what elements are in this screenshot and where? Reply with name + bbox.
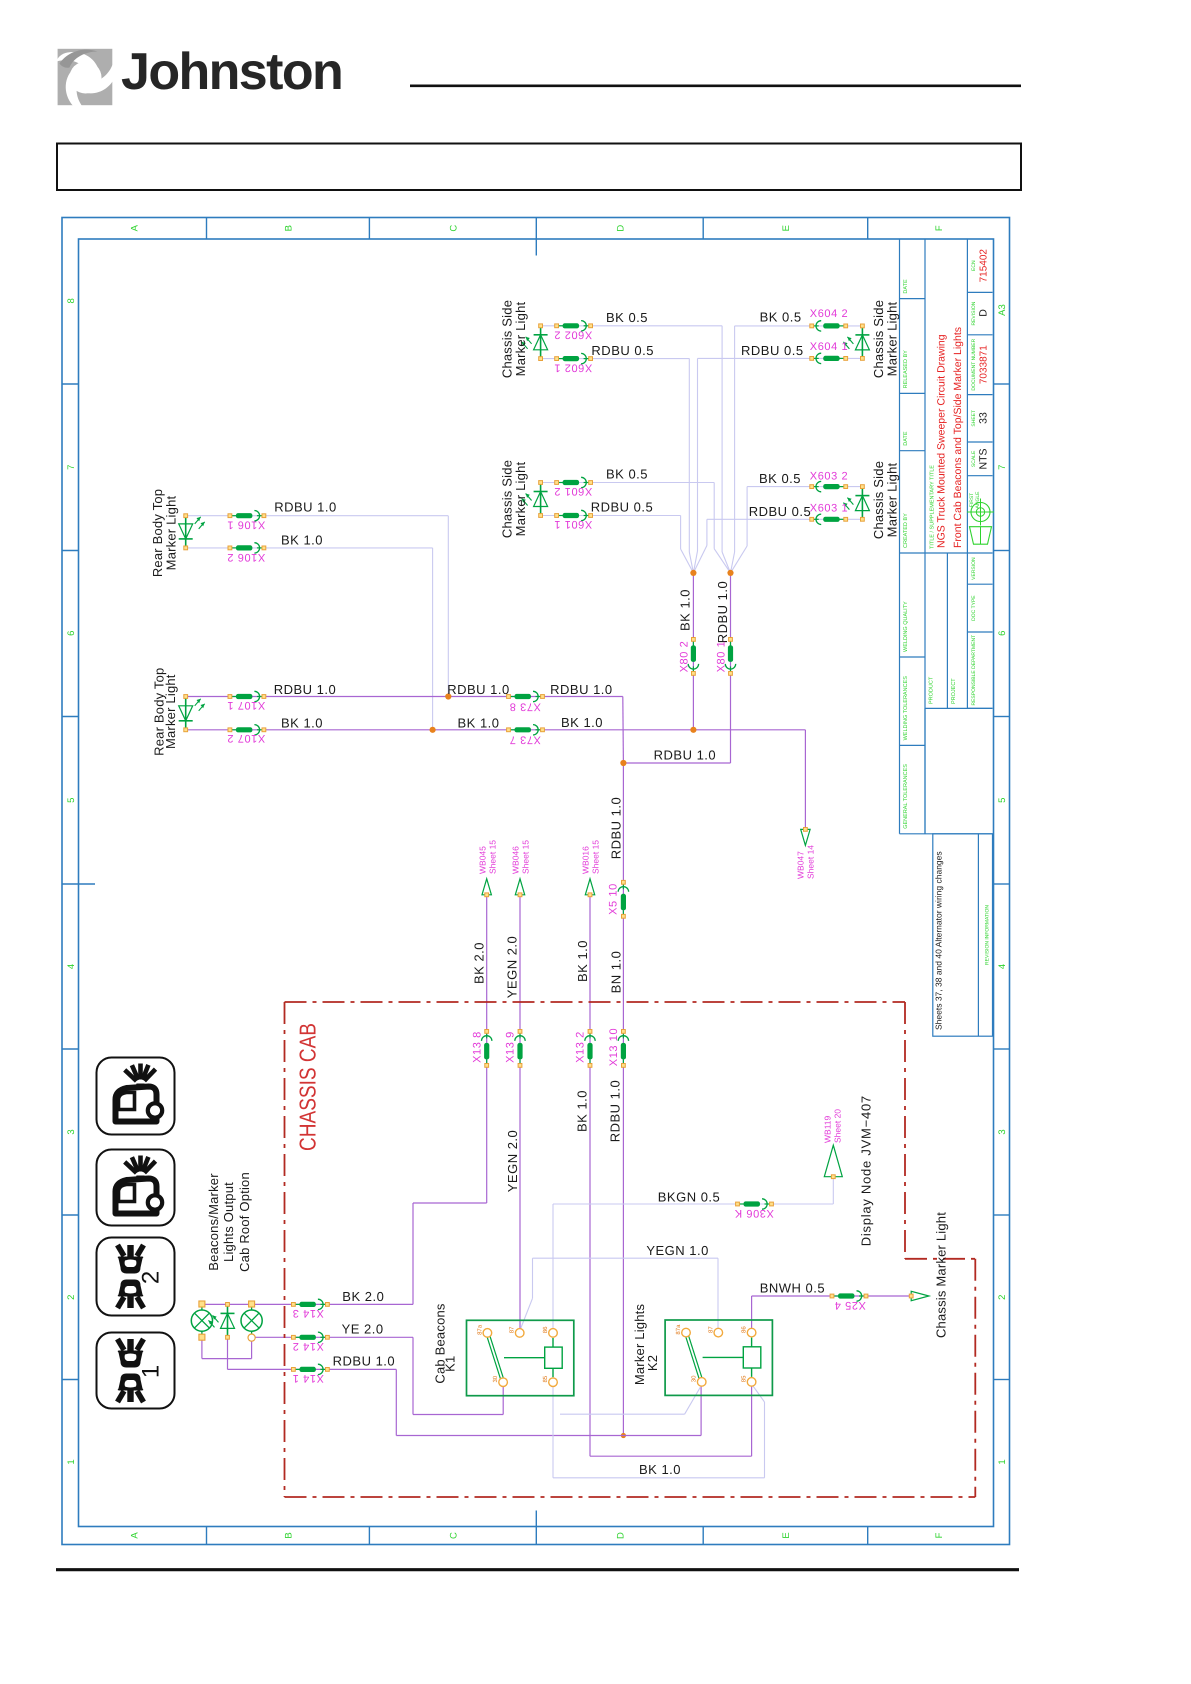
svg-text:X601 1: X601 1 <box>554 518 592 530</box>
svg-text:ECN: ECN <box>971 260 977 271</box>
svg-text:F: F <box>934 225 945 231</box>
svg-text:Chassis Marker Light: Chassis Marker Light <box>933 1212 948 1338</box>
svg-text:BK 1.0: BK 1.0 <box>639 1462 681 1477</box>
svg-text:RDBU 1.0: RDBU 1.0 <box>447 682 510 697</box>
svg-text:87a: 87a <box>675 1324 682 1335</box>
svg-text:REVISION: REVISION <box>971 301 977 325</box>
svg-text:B: B <box>284 225 295 231</box>
svg-text:D: D <box>615 225 626 232</box>
svg-text:YEGN 1.0: YEGN 1.0 <box>646 1243 709 1258</box>
svg-text:WB045: WB045 <box>477 846 487 874</box>
svg-text:7: 7 <box>997 465 1008 470</box>
svg-text:7: 7 <box>66 465 77 470</box>
svg-text:X106 1: X106 1 <box>227 519 265 531</box>
svg-text:Marker Light: Marker Light <box>513 301 528 376</box>
svg-text:X107 2: X107 2 <box>227 732 265 744</box>
svg-text:SHEET: SHEET <box>971 410 977 427</box>
svg-text:X5 10: X5 10 <box>608 883 620 915</box>
svg-text:Beacons/Marker: Beacons/Marker <box>206 1173 221 1271</box>
svg-text:BK 1.0: BK 1.0 <box>575 940 590 982</box>
svg-text:GENERAL TOLERANCES: GENERAL TOLERANCES <box>903 764 909 829</box>
svg-text:Sheet 20: Sheet 20 <box>833 1109 843 1143</box>
svg-text:E: E <box>781 225 792 231</box>
svg-text:Marker Light: Marker Light <box>163 674 178 749</box>
svg-text:86: 86 <box>542 1326 549 1333</box>
svg-text:Sheet 15: Sheet 15 <box>521 840 531 874</box>
svg-text:RDBU 1.0: RDBU 1.0 <box>609 797 624 860</box>
svg-text:1: 1 <box>997 1459 1008 1464</box>
svg-text:Marker Light: Marker Light <box>163 495 178 570</box>
svg-text:2: 2 <box>138 1271 165 1284</box>
svg-text:RDBU 1.0: RDBU 1.0 <box>608 1080 623 1143</box>
svg-text:5: 5 <box>66 798 77 803</box>
svg-text:X107 1: X107 1 <box>227 699 265 711</box>
svg-text:RDBU 0.5: RDBU 0.5 <box>591 500 654 515</box>
svg-text:BK 0.5: BK 0.5 <box>760 310 802 325</box>
svg-text:RELEASED BY: RELEASED BY <box>903 350 909 389</box>
svg-text:Marker Light: Marker Light <box>885 462 900 537</box>
svg-text:86: 86 <box>741 1326 748 1333</box>
svg-text:DOC TYPE: DOC TYPE <box>971 595 977 621</box>
svg-text:E: E <box>781 1532 792 1538</box>
svg-text:1: 1 <box>66 1459 77 1464</box>
svg-text:WB046: WB046 <box>511 846 521 874</box>
svg-text:3: 3 <box>66 1129 77 1134</box>
svg-text:Sheet 14: Sheet 14 <box>806 845 816 879</box>
svg-text:85: 85 <box>741 1375 748 1382</box>
svg-text:BK 2.0: BK 2.0 <box>342 1289 384 1304</box>
svg-text:RDBU 1.0: RDBU 1.0 <box>654 748 717 763</box>
svg-text:SCALE: SCALE <box>971 450 977 467</box>
svg-text:NTS: NTS <box>978 449 990 470</box>
svg-text:A: A <box>130 224 141 231</box>
svg-text:A: A <box>130 1532 141 1539</box>
svg-text:6: 6 <box>997 631 1008 636</box>
svg-text:BN 1.0: BN 1.0 <box>608 951 623 994</box>
svg-text:Lights Output: Lights Output <box>221 1182 236 1262</box>
svg-text:X13 8: X13 8 <box>471 1031 483 1063</box>
svg-text:X13 10: X13 10 <box>608 1028 620 1066</box>
svg-text:WB119: WB119 <box>823 1115 833 1143</box>
svg-text:BK 0.5: BK 0.5 <box>606 467 648 482</box>
svg-text:RDBU 0.5: RDBU 0.5 <box>741 343 804 358</box>
svg-text:PRODUCT: PRODUCT <box>929 676 935 704</box>
svg-text:YEGN 2.0: YEGN 2.0 <box>505 936 520 999</box>
svg-text:BKGN 0.5: BKGN 0.5 <box>658 1189 721 1204</box>
svg-text:DOCUMENT NUMBER: DOCUMENT NUMBER <box>971 338 977 390</box>
svg-text:X106 2: X106 2 <box>227 551 265 563</box>
svg-text:87a: 87a <box>476 1324 483 1335</box>
svg-text:5: 5 <box>997 798 1008 803</box>
svg-text:D: D <box>978 309 990 317</box>
svg-text:BK 2.0: BK 2.0 <box>471 942 486 984</box>
svg-text:CHASSIS CAB: CHASSIS CAB <box>294 1023 320 1151</box>
svg-text:WB016: WB016 <box>581 846 591 874</box>
svg-text:F: F <box>934 1532 945 1538</box>
svg-text:A3: A3 <box>997 304 1008 316</box>
svg-text:X14 3: X14 3 <box>292 1307 324 1319</box>
svg-text:RDBU 1.0: RDBU 1.0 <box>550 682 613 697</box>
svg-text:YE 2.0: YE 2.0 <box>342 1321 384 1336</box>
svg-text:B: B <box>284 1532 295 1538</box>
svg-text:NGS Truck Mounted Sweeper Circ: NGS Truck Mounted Sweeper Circuit Drawin… <box>936 334 948 548</box>
svg-text:X601 2: X601 2 <box>554 485 592 497</box>
svg-text:X25 4: X25 4 <box>834 1299 866 1311</box>
svg-text:85: 85 <box>542 1375 549 1382</box>
svg-text:K1: K1 <box>443 1356 458 1372</box>
svg-text:X80 1: X80 1 <box>716 641 728 673</box>
svg-text:87: 87 <box>509 1326 516 1333</box>
svg-text:BK 1.0: BK 1.0 <box>574 1090 589 1132</box>
svg-text:X602 2: X602 2 <box>554 329 592 341</box>
svg-text:X80 2: X80 2 <box>679 641 691 673</box>
svg-text:DATE: DATE <box>903 279 909 294</box>
svg-text:PROJECT: PROJECT <box>951 678 957 704</box>
svg-text:WELDING TOLERANCES: WELDING TOLERANCES <box>903 676 909 741</box>
svg-text:RDBU 1.0: RDBU 1.0 <box>274 500 337 515</box>
svg-text:RDBU 1.0: RDBU 1.0 <box>715 581 730 644</box>
svg-text:RDBU 1.0: RDBU 1.0 <box>274 682 337 697</box>
svg-text:6: 6 <box>66 631 77 636</box>
svg-text:RDBU 0.5: RDBU 0.5 <box>591 343 654 358</box>
svg-text:Johnston: Johnston <box>121 43 342 101</box>
svg-text:BK 1.0: BK 1.0 <box>561 715 603 730</box>
svg-text:YEGN 2.0: YEGN 2.0 <box>505 1130 520 1193</box>
svg-text:X13 2: X13 2 <box>575 1031 587 1063</box>
svg-text:D: D <box>615 1532 626 1539</box>
svg-text:30: 30 <box>492 1375 499 1382</box>
svg-text:X73 8: X73 8 <box>509 701 541 713</box>
svg-text:Marker Lights: Marker Lights <box>632 1304 647 1386</box>
svg-text:33: 33 <box>978 412 990 424</box>
svg-text:DATE: DATE <box>903 431 909 446</box>
svg-text:2: 2 <box>997 1295 1008 1300</box>
svg-text:CREATED BY: CREATED BY <box>903 513 909 548</box>
svg-text:BK 1.0: BK 1.0 <box>281 715 323 730</box>
svg-text:X604 1: X604 1 <box>810 341 848 353</box>
svg-text:RESPONSIBLE DEPARTMENT: RESPONSIBLE DEPARTMENT <box>971 635 977 706</box>
svg-text:BK 1.0: BK 1.0 <box>678 589 693 631</box>
svg-text:X602 1: X602 1 <box>554 362 592 374</box>
svg-text:4: 4 <box>66 964 77 969</box>
svg-text:BK 1.0: BK 1.0 <box>457 715 499 730</box>
svg-text:Sheets 37, 38 and 40 Alternato: Sheets 37, 38 and 40 Alternator wiring c… <box>934 851 944 1030</box>
svg-text:WB047: WB047 <box>796 851 806 879</box>
svg-text:3: 3 <box>997 1129 1008 1134</box>
svg-text:X73 7: X73 7 <box>509 734 541 746</box>
svg-text:Sheet 15: Sheet 15 <box>487 840 497 874</box>
svg-text:X13 9: X13 9 <box>505 1031 517 1063</box>
svg-text:REVISION INFORMATION: REVISION INFORMATION <box>985 905 991 965</box>
svg-text:K2: K2 <box>645 1355 660 1371</box>
svg-text:BK 0.5: BK 0.5 <box>606 310 648 325</box>
svg-text:Front Cab Beacons and Top/Side: Front Cab Beacons and Top/Side Marker Li… <box>952 327 964 548</box>
svg-text:X14 1: X14 1 <box>292 1372 324 1384</box>
svg-text:VERSION: VERSION <box>971 557 977 580</box>
svg-text:8: 8 <box>66 298 77 303</box>
svg-text:BK 1.0: BK 1.0 <box>281 533 323 548</box>
svg-text:X306 K: X306 K <box>734 1207 774 1219</box>
svg-text:RDBU 1.0: RDBU 1.0 <box>333 1354 396 1369</box>
svg-text:Display Node JVM−407: Display Node JVM−407 <box>859 1095 874 1246</box>
svg-text:4: 4 <box>997 964 1008 969</box>
svg-text:X604 2: X604 2 <box>810 308 848 320</box>
svg-text:C: C <box>448 225 459 232</box>
svg-text:7033871: 7033871 <box>979 345 990 384</box>
svg-text:X603 2: X603 2 <box>810 471 848 483</box>
svg-text:30: 30 <box>691 1375 698 1382</box>
svg-text:Sheet 15: Sheet 15 <box>591 840 601 874</box>
svg-text:WELDING QUALITY: WELDING QUALITY <box>903 601 909 652</box>
svg-text:BNWH 0.5: BNWH 0.5 <box>760 1281 825 1296</box>
svg-text:715402: 715402 <box>979 249 990 283</box>
svg-text:87: 87 <box>707 1326 714 1333</box>
svg-text:2: 2 <box>66 1295 77 1300</box>
svg-text:X14 2: X14 2 <box>292 1340 324 1352</box>
svg-text:X603 1: X603 1 <box>810 503 848 515</box>
svg-text:C: C <box>448 1532 459 1539</box>
svg-text:BK 0.5: BK 0.5 <box>759 471 801 486</box>
svg-text:RDBU 0.5: RDBU 0.5 <box>749 504 812 519</box>
svg-text:Cab Roof Option: Cab Roof Option <box>237 1172 252 1272</box>
svg-text:Marker Light: Marker Light <box>885 301 900 376</box>
svg-text:Marker Light: Marker Light <box>513 461 528 536</box>
svg-text:1: 1 <box>138 1365 165 1378</box>
